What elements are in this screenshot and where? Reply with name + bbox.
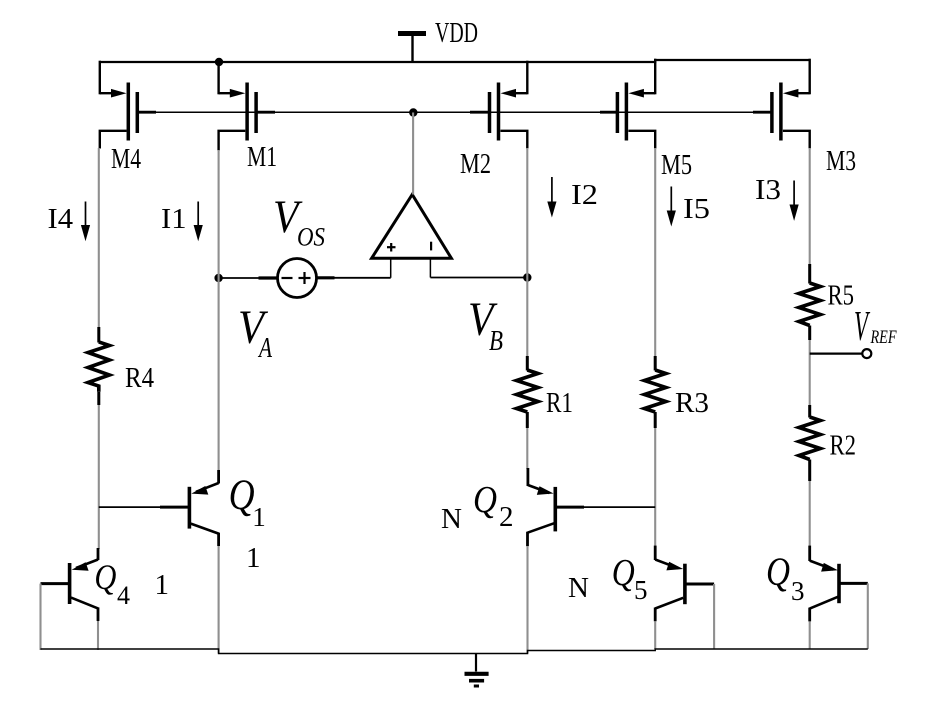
label Q5 <box>612 552 648 605</box>
svg-text:Q: Q <box>766 549 790 594</box>
svg-text:I3: I3 <box>755 175 781 206</box>
resistor R1 <box>517 356 539 428</box>
node VB <box>523 273 531 281</box>
ground rail <box>41 649 868 654</box>
ratio label N near Q2 <box>441 503 462 535</box>
wire Q2 collector to ground rail <box>526 546 528 653</box>
svg-text:M3: M3 <box>826 146 856 177</box>
resistor R2 <box>799 405 821 481</box>
current arrow I1 <box>194 202 203 242</box>
transistor M1 <box>219 61 257 151</box>
svg-text:1: 1 <box>252 502 265 532</box>
wire R1 to Q2 emitter <box>526 428 528 469</box>
svg-text:1: 1 <box>155 569 170 601</box>
svg-text:Q: Q <box>94 557 116 597</box>
svg-text:2: 2 <box>499 501 514 533</box>
label R5 <box>828 281 855 312</box>
op-amp U1 <box>372 195 452 259</box>
label VOS <box>273 192 325 252</box>
resistor R4 <box>88 327 110 405</box>
svg-text:1: 1 <box>246 542 261 574</box>
wire VA to Q1 emitter <box>218 278 220 471</box>
label VREF <box>854 304 897 350</box>
wire M5 drain to R3 <box>654 148 656 357</box>
svg-text:I5: I5 <box>683 194 710 225</box>
ratio label N near Q5 <box>568 572 589 604</box>
Q5 base stub to ground <box>713 584 715 649</box>
transistor Q5 <box>655 546 714 622</box>
label Q2 <box>473 479 514 533</box>
label I5 <box>683 194 710 225</box>
current arrow I4 <box>81 202 90 242</box>
label M3 <box>826 146 856 177</box>
transistor Q3 <box>810 546 868 622</box>
VDD power symbol <box>398 34 426 62</box>
ground symbol <box>465 654 489 687</box>
label M2 <box>460 149 491 180</box>
label Q1 <box>229 472 266 532</box>
wire Q1 collector to ground rail <box>218 546 220 654</box>
transistor Q4 <box>41 548 99 621</box>
label R4 <box>125 363 154 394</box>
transistor M2 <box>490 61 528 149</box>
svg-text:I4: I4 <box>48 204 74 235</box>
resistor R3 <box>644 356 666 428</box>
label Q3 <box>766 549 805 606</box>
svg-text:5: 5 <box>634 575 648 605</box>
svg-text:M4: M4 <box>111 144 141 175</box>
svg-text:M2: M2 <box>460 149 491 180</box>
offset source VOS <box>259 259 335 298</box>
current arrow I3 <box>790 181 799 221</box>
label R1 <box>546 388 573 419</box>
svg-text:R1: R1 <box>546 388 573 419</box>
svg-text:R3: R3 <box>675 388 709 419</box>
svg-text:V: V <box>854 304 870 350</box>
wire M3 drain to R5 <box>809 148 811 265</box>
junction dot gate bus to op-amp output <box>409 108 417 116</box>
svg-text:Q: Q <box>612 552 635 594</box>
transistor Q2 <box>528 468 656 546</box>
label M5 <box>661 150 692 181</box>
svg-text:VDD: VDD <box>435 18 478 49</box>
current arrow I5 <box>667 187 676 227</box>
svg-text:N: N <box>568 572 589 604</box>
wire R2 to Q3 emitter <box>809 481 811 547</box>
svg-text:3: 3 <box>791 576 805 606</box>
label Q4 <box>94 557 130 610</box>
wire R3 to Q2 base node to Q5 emitter <box>654 428 656 547</box>
wire M4 drain to R4 <box>98 148 100 328</box>
wire Q3 collector to ground rail <box>809 621 811 649</box>
VREF tap wire and terminal <box>810 349 872 358</box>
label I4 <box>48 204 74 235</box>
Q3 base stub to ground <box>867 583 869 649</box>
svg-text:Q: Q <box>473 479 497 521</box>
svg-text:R5: R5 <box>828 281 855 312</box>
label I2 <box>571 180 598 211</box>
node VA <box>214 274 222 282</box>
wire VOS to op-amp <box>317 277 391 279</box>
svg-text:M5: M5 <box>661 150 692 181</box>
gate bus <box>137 111 772 113</box>
svg-text:R4: R4 <box>125 363 154 394</box>
svg-text:B: B <box>489 326 503 357</box>
VDD label <box>435 18 478 49</box>
label M4 <box>111 144 141 175</box>
junction dot on supply rail at M1 source <box>215 58 223 66</box>
label I3 <box>755 175 781 206</box>
wire VA to VOS <box>219 277 278 279</box>
svg-text:A: A <box>258 332 273 364</box>
svg-text:R2: R2 <box>830 431 857 462</box>
label VB <box>468 293 503 357</box>
label I1 <box>161 204 187 235</box>
transistor M4 <box>100 61 138 149</box>
transistor M5 <box>617 59 655 149</box>
transistor Q1 <box>99 470 219 546</box>
wire R4 to Q1 base node to Q4 emitter <box>98 405 100 549</box>
wire R5 to VREF tap <box>809 340 811 406</box>
wire op-amp to VB <box>430 277 527 279</box>
op-amp input leads <box>391 258 431 278</box>
resistor R5 <box>799 264 821 340</box>
wire Q5 collector to ground rail <box>654 621 656 649</box>
wire VB to R1 <box>526 278 528 358</box>
transistor M3 <box>772 59 810 149</box>
ratio label 1 near Q4 <box>155 569 170 601</box>
op-amp output wire <box>412 113 414 195</box>
svg-text:REF: REF <box>870 327 897 348</box>
top supply rail <box>100 60 810 62</box>
svg-text:M1: M1 <box>247 142 277 173</box>
svg-text:4: 4 <box>117 581 130 610</box>
Q4 base loop wire <box>39 584 41 650</box>
label R2 <box>830 431 857 462</box>
label VA <box>238 302 272 364</box>
svg-text:N: N <box>441 503 462 535</box>
svg-text:I2: I2 <box>571 180 598 211</box>
wire M2 drain to VB <box>526 148 528 278</box>
label R3 <box>675 388 709 419</box>
svg-text:I1: I1 <box>161 204 187 235</box>
wire Q4 collector to ground rail <box>97 621 99 650</box>
ratio label 1 under Q1 <box>246 542 261 574</box>
current arrow I2 <box>547 177 556 218</box>
wire M1 drain to VA <box>218 150 220 278</box>
label M1 <box>247 142 277 173</box>
svg-text:OS: OS <box>297 223 325 252</box>
svg-text:Q: Q <box>229 472 255 519</box>
